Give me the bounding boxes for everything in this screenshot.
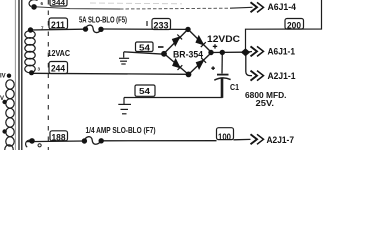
svg-text:200: 200 — [287, 21, 301, 31]
svg-text:A2J1-7: A2J1-7 — [267, 135, 295, 145]
svg-text:211: 211 — [51, 20, 65, 30]
svg-text:C1: C1 — [230, 83, 239, 92]
svg-text:344: 344 — [52, 0, 66, 7]
svg-text:54: 54 — [139, 86, 150, 96]
svg-text:A6J1-1: A6J1-1 — [268, 46, 296, 56]
svg-text:25V.: 25V. — [256, 99, 275, 108]
svg-text:IV: IV — [0, 74, 6, 80]
svg-text:244: 244 — [51, 64, 65, 74]
svg-text:A2J1-1: A2J1-1 — [268, 71, 296, 81]
svg-text:1/4 AMP SLO-BLO (F7): 1/4 AMP SLO-BLO (F7) — [86, 125, 156, 135]
svg-text:12VDC: 12VDC — [207, 34, 241, 44]
svg-text:188: 188 — [52, 133, 66, 144]
svg-text:12VAC: 12VAC — [48, 48, 71, 58]
svg-text:54: 54 — [139, 43, 150, 53]
svg-text:5A SLO-BLO (F5): 5A SLO-BLO (F5) — [79, 15, 127, 25]
svg-text:A6J1-4: A6J1-4 — [268, 2, 297, 12]
svg-text:V: V — [0, 96, 4, 102]
svg-text:100: 100 — [218, 132, 231, 143]
svg-text:233: 233 — [154, 21, 169, 31]
svg-text:BR-354: BR-354 — [173, 49, 203, 59]
